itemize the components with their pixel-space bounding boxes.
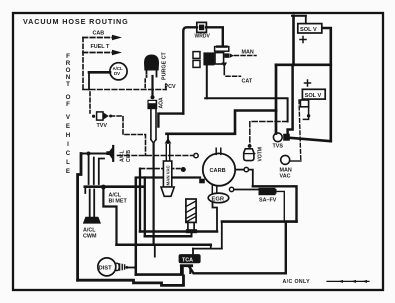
svg-text:CWM: CWM	[83, 234, 97, 240]
svg-text:T: T	[66, 81, 70, 88]
svg-text:CARB: CARB	[210, 168, 226, 174]
svg-text:E: E	[66, 168, 70, 175]
svg-text:R: R	[66, 60, 71, 67]
svg-text:VOTM: VOTM	[258, 147, 264, 161]
svg-text:F: F	[66, 53, 70, 60]
svg-text:CAT: CAT	[242, 79, 253, 85]
svg-text:SA–FV: SA–FV	[259, 198, 277, 204]
svg-text:TVV: TVV	[97, 123, 108, 129]
svg-text:MAN VAC: MAN VAC	[166, 165, 171, 186]
svg-text:AOA: AOA	[159, 97, 165, 109]
svg-text:PURGE CT: PURGE CT	[162, 51, 168, 80]
svg-text:H: H	[66, 132, 71, 139]
svg-text:FUEL T: FUEL T	[91, 44, 110, 50]
svg-text:TVS: TVS	[273, 144, 284, 150]
svg-text:CAB: CAB	[93, 31, 105, 37]
svg-text:E: E	[66, 123, 70, 130]
svg-text:MAN: MAN	[242, 50, 254, 56]
svg-text:SOL V: SOL V	[300, 27, 317, 33]
svg-text:WRDV: WRDV	[195, 34, 211, 40]
svg-text:TCA: TCA	[182, 257, 193, 263]
svg-text:CWB: CWB	[126, 150, 132, 162]
svg-text:C: C	[66, 150, 71, 157]
svg-text:SOL V: SOL V	[305, 93, 322, 99]
svg-text:O: O	[66, 67, 71, 74]
svg-text:O: O	[66, 94, 71, 101]
svg-text:I: I	[67, 141, 69, 148]
svg-text:F: F	[66, 101, 70, 108]
svg-text:N: N	[66, 74, 71, 81]
svg-text:L: L	[66, 159, 70, 166]
svg-text:DIST: DIST	[99, 266, 113, 272]
svg-text:PCV: PCV	[165, 84, 176, 90]
svg-text:BI MET: BI MET	[109, 199, 128, 205]
svg-text:DV: DV	[114, 71, 120, 76]
svg-text:A/C ONLY: A/C ONLY	[283, 279, 311, 285]
svg-text:VACUUM HOSE ROUTING: VACUUM HOSE ROUTING	[23, 17, 129, 26]
svg-text:EGR: EGR	[212, 196, 225, 202]
svg-text:A/CL: A/CL	[120, 150, 126, 162]
svg-text:VAC: VAC	[280, 174, 291, 180]
